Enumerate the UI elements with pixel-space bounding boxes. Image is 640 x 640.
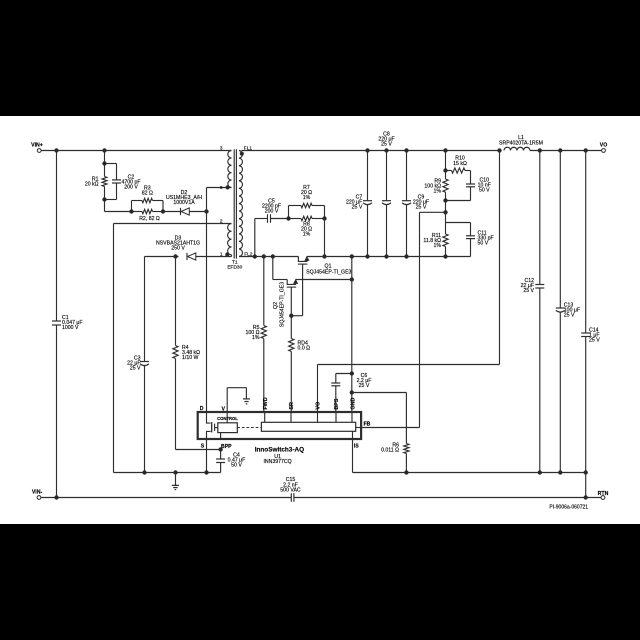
- svg-text:VO: VO: [316, 402, 322, 410]
- ground V pin: [227, 388, 250, 412]
- diode D2: [166, 190, 202, 215]
- label PI-9006a-060721: [549, 505, 588, 511]
- wire VIN- to C15: [41, 496, 291, 499]
- svg-text:BPS: BPS: [334, 398, 340, 409]
- svg-text:SQJ454EP-TI_GE3: SQJ454EP-TI_GE3: [280, 282, 286, 327]
- svg-text:200 V: 200 V: [265, 209, 279, 215]
- wire FB to divider: [361, 212, 445, 427]
- svg-text:0.011 Ω: 0.011 Ω: [381, 448, 399, 454]
- terminal RTN: [598, 491, 609, 500]
- terminal VIN-: [32, 489, 43, 499]
- capacitor C5: [255, 199, 289, 257]
- capacitor C6: [331, 373, 371, 412]
- resistor RD4: [289, 339, 310, 352]
- node R2 R3 junctions: [130, 210, 165, 213]
- capacitor C12: [521, 151, 545, 473]
- wire divider mid node: [444, 192, 471, 222]
- svg-text:Q2: Q2: [273, 302, 279, 309]
- wire L1 to VO: [530, 150, 601, 152]
- wire primary return rail: [114, 472, 221, 474]
- svg-text:GND: GND: [351, 398, 357, 410]
- svg-text:3: 3: [220, 146, 223, 152]
- transistor Q1: [291, 257, 351, 316]
- svg-text:EFD30: EFD30: [227, 265, 242, 271]
- svg-text:1/10 W: 1/10 W: [182, 355, 199, 361]
- wire secondary gnd rail: [307, 256, 471, 258]
- wire R4 to BPP: [176, 359, 223, 452]
- svg-text:D: D: [200, 406, 204, 412]
- resistor R1: [85, 177, 107, 188]
- wire FL2 rail left segment: [239, 256, 298, 258]
- svg-text:25 V: 25 V: [523, 288, 534, 294]
- svg-text:FWD: FWD: [263, 397, 269, 409]
- svg-text:1000V1A: 1000V1A: [173, 200, 195, 206]
- svg-text:25 V: 25 V: [416, 204, 427, 210]
- wire GND column: [351, 257, 353, 413]
- wire C1 column: [56, 151, 58, 498]
- resistor R6: [381, 443, 409, 454]
- wire R9 column top: [444, 151, 447, 180]
- wire pin 6: [207, 187, 232, 189]
- svg-text:15 kΩ: 15 kΩ: [453, 161, 467, 167]
- svg-text:25 V: 25 V: [352, 205, 363, 211]
- capacitor C4: [216, 450, 245, 473]
- wire VIN+ rail to transformer pin 3: [41, 150, 231, 152]
- wire drain column pin6 to D pin: [206, 188, 208, 413]
- svg-text:InnoSwitch3-AQ: InnoSwitch3-AQ: [255, 447, 304, 454]
- ground primary: [172, 473, 179, 490]
- svg-text:200 V: 200 V: [124, 185, 138, 191]
- svg-text:FL1: FL1: [244, 146, 253, 152]
- resistor R5: [246, 325, 267, 341]
- wire C3 column: [144, 257, 146, 473]
- capacitor C10: [466, 171, 491, 201]
- node VIN+ rail junctions: [55, 149, 106, 152]
- wire secondary return rail: [353, 472, 586, 474]
- svg-text:25 V: 25 V: [359, 383, 370, 389]
- svg-text:SR: SR: [289, 402, 295, 410]
- wire pin 2 to primary return: [114, 224, 232, 473]
- svg-text:25 V: 25 V: [130, 366, 141, 372]
- node gnd rail junctions: [350, 255, 447, 258]
- svg-text:1%: 1%: [303, 232, 311, 238]
- resistor R11: [423, 223, 448, 257]
- terminal VIN+: [31, 143, 43, 153]
- svg-text:2: 2: [220, 218, 223, 224]
- node FL2 rail junctions: [253, 255, 274, 258]
- transformer T1 EFD30: [220, 146, 253, 271]
- wire VO sense: [318, 151, 500, 413]
- wire to R2 R3: [105, 211, 132, 213]
- svg-text:25 V: 25 V: [381, 141, 392, 147]
- resistor R4: [173, 345, 200, 361]
- svg-text:RTN: RTN: [598, 491, 609, 497]
- node secondary rail junctions: [405, 471, 588, 474]
- svg-text:500 VAC: 500 VAC: [280, 488, 301, 494]
- inductor L1: [499, 135, 543, 150]
- svg-text:1%: 1%: [434, 189, 442, 195]
- svg-text:FB: FB: [364, 422, 371, 428]
- wire GND to R6: [352, 393, 407, 444]
- svg-text:SQJ454EP-TI_GE3: SQJ454EP-TI_GE3: [306, 270, 351, 276]
- svg-text:Q1: Q1: [325, 263, 332, 269]
- svg-text:20 kΩ: 20 kΩ: [85, 182, 99, 188]
- svg-text:1000 V: 1000 V: [62, 325, 79, 331]
- terminal VO: [600, 143, 608, 153]
- svg-text:0.0 Ω: 0.0 Ω: [298, 346, 311, 352]
- svg-text:1%: 1%: [434, 243, 442, 249]
- IC U1 InnoSwitch3-AQ INN3977CQ: [198, 397, 371, 472]
- resistor R8: [289, 216, 325, 237]
- capacitor C14: [581, 151, 600, 473]
- capacitor C3: [127, 356, 149, 372]
- wire R1 column: [104, 151, 106, 212]
- wire FWD column: [263, 257, 265, 413]
- svg-text:82 Ω: 82 Ω: [142, 190, 153, 196]
- svg-text:1%: 1%: [252, 335, 260, 341]
- capacitor C11: [446, 223, 494, 257]
- svg-text:PI-9006a-060721: PI-9006a-060721: [549, 505, 588, 511]
- wire RD4 to SR pin: [290, 352, 292, 413]
- capacitor C1: [52, 315, 83, 331]
- svg-text:SRP4020TA-1R5M: SRP4020TA-1R5M: [499, 140, 543, 146]
- svg-text:VO: VO: [600, 143, 608, 149]
- node R1 C2 junctions: [103, 162, 106, 201]
- wire FL1 to L1 secondary top rail: [242, 150, 501, 152]
- resistor R9: [424, 179, 448, 195]
- node primary rail junctions: [143, 471, 208, 474]
- svg-text:50 V: 50 V: [479, 188, 490, 194]
- capacitor C9: [402, 151, 429, 257]
- svg-text:VIN+: VIN+: [31, 143, 43, 149]
- svg-text:IS: IS: [354, 444, 359, 450]
- resistor R10: [446, 156, 471, 173]
- capacitor C7: [346, 151, 372, 257]
- resistor R3: [132, 185, 164, 211]
- wire R4 top: [175, 257, 177, 346]
- svg-text:S: S: [201, 444, 205, 450]
- wire R8 branch to rail: [287, 217, 326, 258]
- wire R2 to D2: [163, 211, 181, 213]
- svg-text:1: 1: [220, 252, 223, 258]
- wire C15 to RTN: [294, 497, 601, 499]
- svg-text:50 V: 50 V: [478, 241, 489, 247]
- wire rail to RTN: [584, 473, 587, 500]
- wire R6 to rail: [405, 454, 407, 473]
- svg-text:25 V: 25 V: [564, 313, 575, 319]
- svg-text:INN3977CQ: INN3977CQ: [263, 459, 291, 465]
- node secondary top rail junctions: [366, 149, 501, 152]
- node GND column taps: [350, 372, 353, 394]
- svg-text:250 V: 250 V: [171, 246, 185, 252]
- resistor R2: [132, 209, 164, 222]
- svg-text:R2, 82 Ω: R2, 82 Ω: [139, 216, 160, 222]
- svg-text:VIN-: VIN-: [32, 489, 43, 495]
- wire D3 anode side: [145, 256, 179, 258]
- capacitor C13: [556, 151, 580, 473]
- wire D2 to drain column: [189, 210, 208, 213]
- resistor R7: [289, 185, 325, 218]
- wire D3 to pin 1: [174, 255, 232, 258]
- capacitor C2: [105, 164, 141, 200]
- capacitor C8: [378, 132, 394, 257]
- svg-text:25 V: 25 V: [589, 338, 600, 344]
- svg-text:6: 6: [220, 185, 223, 191]
- node output rail junctions: [538, 149, 587, 152]
- capacitor C15: [280, 477, 301, 502]
- svg-text:50 V: 50 V: [231, 462, 242, 468]
- svg-text:V: V: [222, 407, 226, 413]
- diode D3: [156, 236, 200, 260]
- transistor Q2: [273, 257, 354, 339]
- svg-text:1%: 1%: [303, 195, 311, 201]
